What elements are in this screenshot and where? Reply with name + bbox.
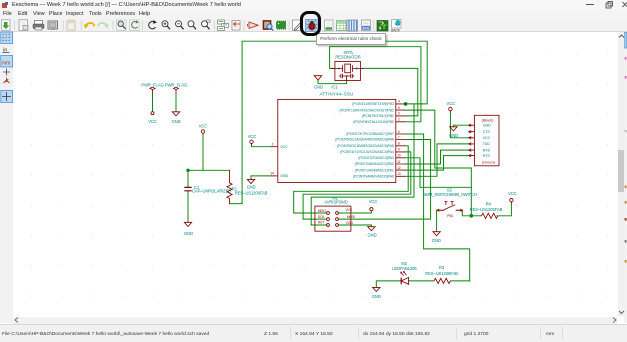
wire pin 10 to switch node bbox=[405, 157, 471, 187]
teal labels bbox=[141, 49, 516, 298]
power symbol VCC at R4 bbox=[510, 198, 513, 201]
junction RESET at pin 4 bbox=[404, 102, 408, 106]
zoom in bbox=[162, 20, 170, 29]
resonator XTL1 body bbox=[335, 61, 361, 80]
wire PWR_FLAG GND pole bbox=[175, 93, 177, 111]
switch S3 bbox=[437, 209, 462, 211]
svg-text:VCC: VCC bbox=[346, 208, 353, 212]
wire resonator left pin loop to pin 2 XTAL1 bbox=[330, 46, 421, 121]
M1 pin circles bbox=[327, 211, 330, 214]
power symbol GND (pwr flag) bbox=[172, 111, 179, 115]
svg-text:BOM: BOM bbox=[363, 26, 370, 30]
pcbnew bbox=[377, 20, 388, 31]
annotate arrow bbox=[248, 22, 259, 28]
svg-text:CTS: CTS bbox=[483, 130, 491, 134]
capacitor C1 bbox=[184, 187, 191, 190]
wire R4 to VCC bbox=[497, 201, 511, 215]
find replace bbox=[130, 20, 140, 31]
svg-text:(Green): (Green) bbox=[482, 159, 496, 164]
pin 14 bbox=[271, 174, 278, 176]
svg-text:AVRISPSMD: AVRISPSMD bbox=[324, 199, 348, 204]
svg-text:GND: GND bbox=[432, 238, 441, 243]
footprint chooser bbox=[277, 20, 286, 29]
svg-text:SCK: SCK bbox=[318, 215, 325, 219]
paste (disabled) bbox=[67, 19, 76, 30]
table blue stripes bbox=[347, 20, 358, 31]
svg-text:6MM_SWITCH6MM_SWITCH: 6MM_SWITCH6MM_SWITCH bbox=[423, 192, 476, 197]
window buttons bbox=[586, 4, 594, 5]
zoom fit bbox=[188, 20, 196, 29]
save bbox=[2, 19, 11, 30]
svg-text:R3: R3 bbox=[439, 264, 445, 269]
ground at FTDI bbox=[450, 126, 457, 130]
svg-text:MISO: MISO bbox=[318, 209, 327, 213]
svg-text:VCC: VCC bbox=[508, 191, 517, 196]
svg-text:GND: GND bbox=[184, 231, 193, 236]
svg-text:12: 12 bbox=[397, 165, 401, 169]
wire RESET to M1 RST bbox=[311, 103, 414, 224]
power symbol VCC (pwr flag) bbox=[151, 111, 154, 114]
lib browser bbox=[263, 20, 273, 30]
svg-text:1: 1 bbox=[272, 142, 274, 146]
svg-text:GND: GND bbox=[346, 220, 354, 224]
svg-text:(PCINT2/AIN1/ADC2)PA2: (PCINT2/AIN1/ADC2)PA2 bbox=[355, 162, 394, 166]
find bbox=[117, 20, 127, 31]
pin 1 bbox=[271, 145, 278, 147]
svg-text:(PCINT4/T1/SCL/USCK/ADC4)PA4: (PCINT4/T1/SCL/USCK/ADC4)PA4 bbox=[340, 150, 394, 154]
svg-text:LEDFAB1206: LEDFAB1206 bbox=[392, 266, 417, 271]
ground at M1 bbox=[368, 226, 375, 230]
wire VCC to IC pin 1 bbox=[252, 143, 272, 146]
svg-text:VCC: VCC bbox=[483, 136, 491, 140]
junction switch/R4 node bbox=[470, 214, 474, 218]
svg-text:(Black): (Black) bbox=[482, 117, 495, 122]
power symbol VCC near C1 bbox=[201, 129, 204, 132]
svg-text:14: 14 bbox=[270, 171, 274, 175]
vscroll arrows bbox=[618, 33, 625, 40]
svg-text:RES–US1206FAB: RES–US1206FAB bbox=[425, 271, 458, 276]
resonator crystal element bbox=[335, 65, 361, 72]
svg-text:MOSI: MOSI bbox=[347, 214, 355, 218]
connector J1 FTDI body bbox=[474, 115, 499, 166]
plot bbox=[48, 21, 58, 29]
wire RESET net loop to pin 4 bbox=[242, 41, 427, 204]
svg-text:CAP–UNPOLARIZED: CAP–UNPOLARIZED bbox=[192, 188, 231, 193]
svg-text:9: 9 bbox=[398, 147, 400, 151]
wire switch left to GND bbox=[436, 210, 438, 232]
window icon bbox=[2, 2, 9, 9]
leave sheet bbox=[232, 20, 240, 30]
wire pin 7 MOSI to M1 bbox=[338, 139, 430, 219]
netlist bbox=[325, 20, 334, 31]
print bbox=[33, 20, 44, 30]
svg-text:IC1: IC1 bbox=[331, 84, 338, 89]
wire switch right to R4 bbox=[462, 210, 481, 216]
annotate pencil bbox=[293, 20, 303, 31]
wire VCC bus to R1 top bbox=[188, 169, 230, 171]
svg-text:7: 7 bbox=[398, 135, 400, 139]
wire IC pin 14 to GND bbox=[251, 175, 271, 179]
wire pin 12 to FTDI RTS bbox=[405, 155, 468, 170]
right toolbar icons bbox=[624, 32, 627, 292]
wire FTDI VCC bbox=[450, 112, 468, 137]
wire FTDI GND bbox=[453, 125, 468, 127]
svg-text:4: 4 bbox=[398, 99, 400, 103]
hscroll left arrow bbox=[13, 316, 21, 324]
svg-text:6: 6 bbox=[398, 129, 400, 133]
BOM sheet bbox=[362, 20, 371, 31]
svg-text:11: 11 bbox=[397, 159, 400, 163]
wire resonator right pin to pin 3 XTAL2 bbox=[363, 68, 418, 116]
svg-text:2: 2 bbox=[398, 117, 400, 121]
wire C1 bottom to GND bbox=[187, 190, 189, 222]
svg-text:VCC: VCC bbox=[199, 123, 208, 128]
wire R3 to riser bbox=[451, 279, 470, 281]
wire pin 6 to LED branch bbox=[405, 134, 469, 281]
wire M1 VCC pin to VCC symbol bbox=[338, 210, 371, 212]
IC IC1 ATTINY44-SSU body bbox=[278, 99, 396, 182]
ground at switch bbox=[433, 231, 440, 235]
svg-text:(PCINT9/XTAL2)PB1: (PCINT9/XTAL2)PB1 bbox=[362, 114, 394, 118]
FTDI pins with arrows bbox=[468, 125, 474, 155]
power symbol VCC at M1 bbox=[370, 207, 373, 210]
wire GND to LED anode bbox=[376, 280, 401, 287]
hierarchy bbox=[218, 20, 229, 31]
svg-text:13: 13 bbox=[397, 172, 401, 176]
svg-text:RTS: RTS bbox=[483, 153, 491, 157]
wire C1 top lead bbox=[187, 170, 189, 187]
junction VCC/C1/R1 bbox=[186, 168, 189, 171]
wire PWR_FLAG VCC pole bbox=[152, 93, 154, 111]
page settings bbox=[19, 19, 28, 30]
resonator pin end dots bbox=[338, 67, 357, 76]
ground at resonator bbox=[314, 75, 321, 79]
svg-text:GND: GND bbox=[171, 118, 180, 123]
ground at IC pin14 bbox=[247, 179, 254, 183]
svg-text:(PCINT10/INT0/OC0A/CKOUT)PB2: (PCINT10/INT0/OC0A/CKOUT)PB2 bbox=[339, 108, 393, 112]
power symbol VCC at FTDI bbox=[449, 107, 452, 110]
svg-text:GND: GND bbox=[372, 293, 381, 298]
svg-text:VCC: VCC bbox=[148, 118, 157, 123]
svg-text:R4: R4 bbox=[486, 201, 492, 206]
LED M2 bbox=[400, 277, 402, 284]
PWR_FLAG flag 2 bbox=[174, 87, 179, 93]
ground below C1 bbox=[184, 222, 191, 226]
connector M1 AVRISPSMD body bbox=[315, 206, 351, 231]
svg-text:3: 3 bbox=[398, 111, 400, 115]
pins 6-13 bbox=[396, 134, 406, 176]
PWR_FLAG flag 1 bbox=[150, 87, 155, 93]
wire pin 9 SCK to M1 bbox=[303, 151, 411, 218]
svg-text:VCC: VCC bbox=[369, 198, 378, 203]
svg-text:10: 10 bbox=[397, 153, 401, 157]
resonator capacitors bbox=[339, 73, 355, 80]
refresh bbox=[149, 20, 157, 29]
svg-text:ATTINY44–SSU: ATTINY44–SSU bbox=[319, 91, 353, 96]
svg-text:VCC: VCC bbox=[447, 100, 456, 105]
svg-text:(PCINT3/T0/ADC3)PA3: (PCINT3/T0/ADC3)PA3 bbox=[358, 156, 394, 160]
resonator pins bbox=[331, 67, 363, 69]
wire pin 13 to FTDI TXD bbox=[405, 143, 468, 175]
power symbol VCC at IC pin1 bbox=[250, 140, 253, 143]
svg-text:(PCINT6/OC1A/SDA/MOSI/ADC6)PA6: (PCINT6/OC1A/SDA/MOSI/ADC6)PA6 bbox=[335, 137, 394, 141]
svg-text:8: 8 bbox=[398, 141, 400, 145]
svg-text:RXD: RXD bbox=[483, 148, 491, 152]
svg-text:GND: GND bbox=[314, 84, 323, 89]
svg-text:RES–US1206FAB: RES–US1206FAB bbox=[235, 190, 268, 195]
wire LED to R3 bbox=[409, 279, 434, 281]
wire VCC to C1 junction bbox=[202, 135, 204, 170]
wire R1 bottom to RESET riser bbox=[230, 202, 243, 204]
svg-text:5: 5 bbox=[398, 105, 400, 109]
svg-text:PB1: PB1 bbox=[447, 213, 453, 217]
svg-text:(PCINT1/AIN0/ADC1)PA1: (PCINT1/AIN0/ADC1)PA1 bbox=[355, 168, 394, 172]
svg-text:GND: GND bbox=[449, 133, 458, 138]
svg-text:TXD: TXD bbox=[483, 142, 490, 146]
svg-text:GND: GND bbox=[483, 123, 491, 127]
svg-text:(PCINT11/RESET/DW)PB3: (PCINT11/RESET/DW)PB3 bbox=[352, 102, 394, 106]
bom table green bbox=[337, 20, 347, 30]
redo (pale) bbox=[98, 23, 108, 29]
wire pin 8 MISO to M1 bbox=[294, 145, 409, 212]
svg-text:GND: GND bbox=[280, 174, 288, 178]
IC pin names bbox=[280, 102, 491, 178]
wire pin 5 to switch node bbox=[405, 110, 471, 216]
svg-text:PWR_FLAG: PWR_FLAG bbox=[165, 82, 187, 87]
wire resonator bottom to GND bbox=[318, 80, 347, 84]
svg-text:RESONATOR: RESONATOR bbox=[335, 54, 360, 59]
svg-text:VCC: VCC bbox=[248, 133, 257, 138]
zoom select bbox=[202, 20, 211, 29]
pins 4,5,3,2 bbox=[396, 103, 406, 121]
wire M1 GND pin to GND symbol bbox=[338, 225, 371, 227]
resistor R3 bbox=[434, 278, 451, 283]
svg-text:RST: RST bbox=[318, 220, 324, 224]
svg-text:VCC: VCC bbox=[280, 144, 288, 148]
svg-text:mm: mm bbox=[2, 61, 10, 67]
svg-text:(PCINT5/OC1B/MISO/DO/ADC5)PA5: (PCINT5/OC1B/MISO/DO/ADC5)PA5 bbox=[337, 144, 394, 148]
undo bbox=[84, 23, 94, 29]
resistor R4 bbox=[482, 213, 499, 218]
svg-text:(PCINT7/ICP/OC0B/ADC7)PA7: (PCINT7/ICP/OC0B/ADC7)PA7 bbox=[346, 132, 394, 136]
zoom out bbox=[176, 20, 184, 29]
svg-text:(PCINT0/AREF/ADC0)PA0: (PCINT0/AREF/ADC0)PA0 bbox=[353, 174, 394, 178]
svg-text:(PCINT8/XTAL1/CLKI)PB0: (PCINT8/XTAL1/CLKI)PB0 bbox=[353, 120, 394, 124]
back annotate bbox=[391, 19, 401, 32]
svg-text:PWR_FLAG: PWR_FLAG bbox=[141, 82, 163, 87]
ground at LED bbox=[373, 287, 380, 291]
svg-text:GND: GND bbox=[247, 184, 256, 189]
left toolbar icons bbox=[0, 19, 13, 323]
svg-text:GND: GND bbox=[367, 232, 376, 237]
svg-text:RES–US1206FAB: RES–US1206FAB bbox=[470, 207, 503, 212]
ERC bug (selected) bbox=[306, 19, 319, 31]
red pin numbers / maroon pin names bbox=[270, 99, 453, 224]
wire pin 11 to FTDI RXD bbox=[405, 150, 468, 164]
resistor R1 bbox=[227, 170, 232, 203]
